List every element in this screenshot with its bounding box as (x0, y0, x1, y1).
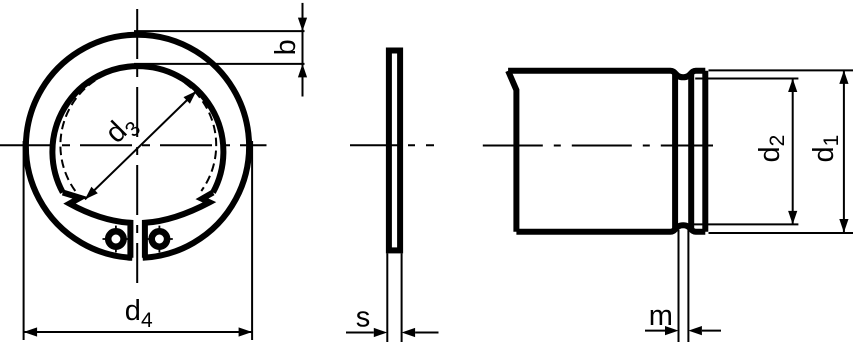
left lug hole ticks (103, 226, 130, 253)
b extension line top (134, 30, 305, 32)
right notch and lug boundary (145, 193, 213, 258)
left lug hole (108, 231, 123, 246)
b dimension line (302, 3, 304, 97)
d2 extension bottom (693, 223, 798, 225)
b arrow bottom (298, 64, 307, 78)
side view rectangle (389, 51, 400, 251)
s extension line left (386, 253, 388, 342)
m extension line left (678, 230, 680, 342)
d2 extension top (695, 78, 798, 80)
horizontal centerline (0, 144, 267, 146)
vertical centerline (136, 9, 138, 283)
dimension b (top right) (134, 3, 307, 97)
d1 extension bottom (709, 232, 853, 234)
d4 extension line left (23, 141, 25, 340)
m dimension line (645, 330, 721, 332)
svg-text:b: b (270, 39, 302, 55)
svg-text:m: m (649, 300, 673, 332)
dimension d2 and d1 (693, 70, 853, 233)
dimension d3 diagonal arrow (85, 91, 196, 199)
centerline through side view (350, 144, 434, 146)
d4 extension line right (251, 141, 253, 340)
dimension d4 (bottom of left view) (24, 141, 253, 340)
right lug hole (152, 231, 167, 246)
d1 dimension line (843, 70, 845, 232)
bottom edge (516, 225, 705, 232)
left notch and lug boundary (63, 193, 131, 258)
shaft outline: top edge with groove dip, end faces, bottom edge with dip (508, 71, 516, 232)
s extension line right (401, 253, 403, 342)
dimension m (645, 230, 721, 342)
dashed free-state circle d3 (60, 67, 216, 191)
b extension line bottom (134, 63, 305, 65)
ring inner eccentric edge arc (52, 66, 223, 192)
groove wall left (672, 73, 678, 230)
d2 dimension line (792, 79, 794, 225)
d1 extension top (709, 69, 853, 71)
right lug hole ticks (146, 226, 173, 253)
d4 dimension line (24, 331, 253, 333)
right end face (702, 71, 708, 232)
top edge (508, 71, 705, 78)
dimension s (346, 328, 439, 337)
m extension line right (687, 230, 689, 342)
ring outer edge arc with gap at bottom (26, 35, 249, 258)
groove wall right (688, 73, 694, 230)
b arrow top (298, 18, 307, 32)
shaft centerline (483, 145, 713, 147)
svg-text:s: s (356, 302, 371, 334)
